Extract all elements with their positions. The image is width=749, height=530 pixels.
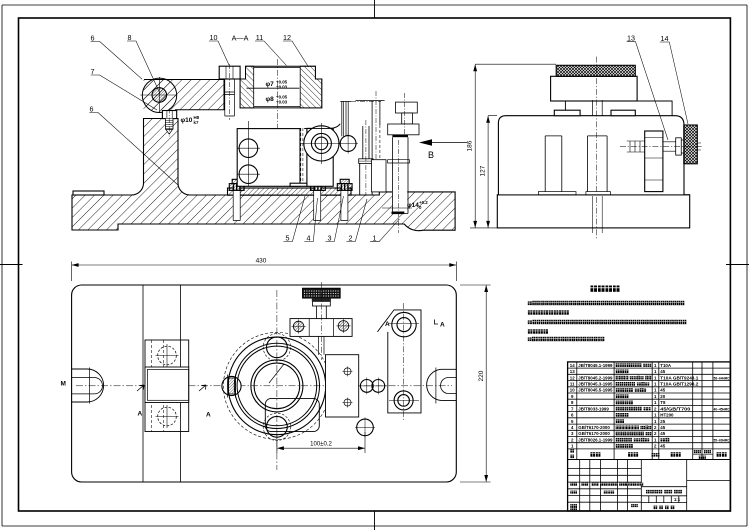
svg-text:20: 20 (660, 394, 665, 399)
svg-text:1: 1 (654, 413, 657, 418)
svg-text:φ8: φ8 (266, 96, 275, 103)
svg-text:45: 45 (660, 388, 665, 393)
svg-text:8: 8 (571, 400, 574, 405)
svg-text:10: 10 (210, 33, 218, 42)
svg-text:+0.03: +0.03 (276, 100, 288, 105)
svg-text:HT200: HT200 (660, 413, 674, 418)
svg-text:M: M (61, 381, 66, 388)
svg-text:A—A: A—A (232, 34, 249, 43)
svg-text:GB/T6170-2000: GB/T6170-2000 (578, 431, 610, 436)
svg-text:58~64HRC: 58~64HRC (714, 376, 730, 380)
svg-text:1: 1 (571, 444, 574, 449)
svg-text:2: 2 (654, 431, 657, 436)
svg-text:9: 9 (571, 394, 574, 399)
svg-text:7: 7 (91, 67, 95, 76)
svg-text:45/GB/T700: 45/GB/T700 (660, 406, 691, 411)
svg-text:φ14: φ14 (407, 202, 419, 209)
svg-text:A: A (138, 411, 143, 418)
svg-text:4: 4 (571, 425, 574, 430)
svg-text:55~60HRC: 55~60HRC (714, 438, 730, 442)
svg-text:4: 4 (307, 234, 311, 243)
svg-text:T8: T8 (660, 400, 666, 405)
svg-text:1: 1 (373, 234, 377, 243)
svg-text:12: 12 (570, 375, 575, 380)
svg-text:12: 12 (283, 33, 291, 42)
svg-text:JB/T8045.1-1999: JB/T8045.1-1999 (578, 363, 613, 368)
svg-text:40~45HRC: 40~45HRC (714, 407, 730, 411)
svg-text:T10A GB/T1298.2: T10A GB/T1298.2 (660, 382, 699, 387)
svg-text:φ7: φ7 (266, 81, 275, 88)
svg-text:1: 1 (654, 437, 657, 442)
svg-text:11: 11 (570, 382, 575, 387)
svg-text:JB/T8045.5-1995: JB/T8045.5-1995 (578, 388, 613, 393)
svg-text:2: 2 (654, 444, 657, 449)
svg-text:1: 1 (654, 388, 657, 393)
svg-text:127: 127 (480, 165, 487, 176)
svg-text:186: 186 (467, 140, 474, 151)
svg-text:14: 14 (661, 34, 669, 43)
svg-text:5: 5 (571, 419, 574, 424)
svg-text:13: 13 (570, 369, 575, 374)
svg-text:JB/T8026.1-1999: JB/T8026.1-1999 (578, 437, 613, 442)
svg-text:1:1: 1:1 (674, 497, 681, 502)
svg-text:1: 1 (654, 400, 657, 405)
svg-text:2: 2 (654, 425, 657, 430)
svg-text:JB/T8045.2-1999: JB/T8045.2-1999 (578, 375, 613, 380)
svg-text:6: 6 (571, 413, 574, 418)
svg-text:2: 2 (571, 437, 574, 442)
svg-text:13: 13 (627, 34, 635, 43)
svg-text:1: 1 (654, 369, 657, 374)
svg-text:1: 1 (654, 394, 657, 399)
svg-text:1: 1 (654, 419, 657, 424)
svg-text:T10A GB/T9243.1: T10A GB/T9243.1 (660, 375, 699, 380)
svg-text:φ10: φ10 (181, 117, 193, 124)
svg-text:JB/T8045.3-1995: JB/T8045.3-1995 (578, 382, 613, 387)
svg-text:10: 10 (570, 388, 575, 393)
svg-text:1: 1 (654, 363, 657, 368)
svg-text:JB/T8033-1999: JB/T8033-1999 (578, 406, 609, 411)
svg-text:1: 1 (654, 382, 657, 387)
svg-text:T10A: T10A (660, 363, 672, 368)
svg-text:45: 45 (660, 431, 665, 436)
svg-text:1: 1 (654, 375, 657, 380)
svg-text:11: 11 (256, 33, 263, 42)
svg-text:2: 2 (349, 234, 353, 243)
svg-text:7: 7 (571, 406, 574, 411)
svg-text:8: 8 (128, 33, 132, 42)
svg-text:B: B (428, 150, 434, 160)
svg-text:A: A (385, 321, 390, 328)
svg-text:GB/T6170-2000: GB/T6170-2000 (578, 425, 610, 430)
svg-text:45: 45 (660, 369, 665, 374)
svg-text:100±0.2: 100±0.2 (310, 442, 332, 448)
svg-text:5: 5 (286, 234, 290, 243)
svg-text:+0.03: +0.03 (276, 85, 288, 90)
svg-text:220: 220 (478, 370, 485, 381)
svg-text:k7: k7 (194, 120, 199, 125)
svg-text:45: 45 (660, 425, 665, 430)
svg-text:A: A (440, 322, 445, 329)
svg-text:2: 2 (654, 406, 657, 411)
svg-text:6: 6 (90, 105, 94, 114)
svg-text:6: 6 (91, 34, 95, 43)
svg-text:A: A (206, 412, 211, 419)
svg-text:3: 3 (328, 234, 332, 243)
svg-text:3: 3 (571, 431, 574, 436)
svg-text:45: 45 (660, 444, 665, 449)
svg-text:25: 25 (660, 419, 665, 424)
svg-text:14: 14 (570, 363, 575, 368)
svg-text:430: 430 (256, 258, 267, 265)
